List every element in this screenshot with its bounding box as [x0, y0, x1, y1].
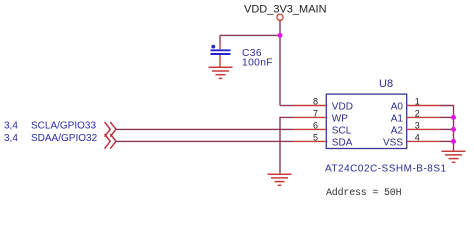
svg-text:WP: WP	[332, 113, 348, 124]
capacitor C36	[211, 44, 231, 68]
off-page connector SDAA	[105, 134, 116, 149]
wire pin 4 stub	[440, 140, 454, 142]
power port circle VDD_3V3_MAIN	[277, 14, 283, 20]
svg-text:5: 5	[313, 133, 318, 143]
wire VDD to pin 8	[280, 105, 293, 107]
pin 6 SCL	[293, 121, 352, 137]
svg-text:SCLA/GPIO33: SCLA/GPIO33	[31, 120, 96, 131]
ground (below C36)	[209, 67, 233, 78]
svg-text:100nF: 100nF	[242, 57, 273, 68]
junction pin 2	[451, 115, 456, 120]
svg-text:U8: U8	[379, 78, 393, 90]
svg-text:7: 7	[313, 109, 318, 119]
ground (right bus)	[442, 151, 466, 162]
ground (WP)	[268, 174, 292, 185]
svg-text:1: 1	[415, 97, 420, 107]
svg-text:3,4: 3,4	[4, 133, 18, 144]
pin 8 VDD	[293, 97, 353, 113]
svg-text:VDD_3V3_MAIN: VDD_3V3_MAIN	[244, 3, 327, 15]
wire VDD vertical (circle to pin 8)	[279, 20, 281, 105]
svg-text:SDA: SDA	[332, 137, 353, 148]
svg-text:6: 6	[313, 121, 318, 131]
svg-text:3,4: 3,4	[4, 120, 18, 131]
svg-text:AT24C02C-SSHM-B-8S1: AT24C02C-SSHM-B-8S1	[325, 163, 447, 174]
svg-text:A0: A0	[391, 101, 404, 112]
svg-text:8: 8	[313, 97, 318, 107]
pin 4 VSS	[383, 133, 440, 149]
svg-text:Address = 50H: Address = 50H	[326, 187, 402, 199]
wire pin 2 stub	[440, 116, 454, 118]
off-page connector SCLA	[105, 122, 116, 137]
pin 3 A2	[391, 121, 440, 137]
pin 2 A1	[391, 109, 440, 125]
wire right bus vertical	[453, 117, 455, 151]
wire pin 3 stub	[440, 128, 454, 130]
wire SDAA to pin 5	[116, 140, 293, 142]
svg-text:4: 4	[415, 133, 420, 143]
wire C36 vertical stub	[219, 35, 221, 43]
junction pin 3	[451, 127, 456, 132]
svg-text:A1: A1	[391, 113, 404, 124]
wire WP to ground	[280, 117, 293, 174]
junction pin 4	[451, 139, 456, 144]
junction VDD/C36	[278, 33, 283, 38]
svg-text:2: 2	[415, 109, 420, 119]
pin 1 A0	[391, 97, 440, 113]
pin 5 SDA	[293, 133, 353, 149]
svg-text:3: 3	[415, 121, 420, 131]
svg-text:SCL: SCL	[332, 125, 352, 136]
wire C36 top horizontal	[220, 34, 280, 36]
pin 7 WP	[293, 109, 348, 125]
wire SCLA to pin 6	[116, 128, 293, 130]
wire pin 1 to right bus	[440, 106, 454, 118]
svg-text:VDD: VDD	[332, 101, 353, 112]
IC U8 body	[326, 94, 406, 148]
svg-text:A2: A2	[391, 125, 404, 136]
svg-text:VSS: VSS	[383, 137, 403, 148]
svg-text:SDAA/GPIO32: SDAA/GPIO32	[31, 133, 98, 144]
